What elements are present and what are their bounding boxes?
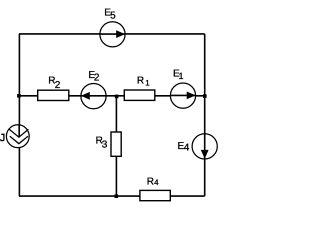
wire top horizontal [19, 33, 205, 35]
svg-text:4: 4 [154, 178, 159, 187]
svg-text:1: 1 [179, 71, 184, 81]
label J (clipped at left edge) [1, 134, 5, 140]
resistor R1 [124, 90, 155, 100]
wire middle vertical R3 branch [115, 96, 117, 196]
resistor R2 [38, 90, 69, 100]
junction node center-middle [115, 95, 119, 99]
svg-text:2: 2 [94, 73, 100, 84]
label R1 [137, 76, 150, 88]
label R4 [147, 176, 159, 187]
svg-text:R: R [137, 76, 144, 87]
junction node left-middle [17, 94, 21, 98]
wire left vertical [18, 34, 20, 196]
resistor R4 [140, 190, 170, 200]
resistor R3 [111, 132, 121, 156]
label R3 [96, 136, 108, 151]
voltage source E2 [81, 84, 106, 109]
junction node right-middle [203, 94, 207, 98]
label R2 [48, 76, 61, 91]
wire right vertical [204, 34, 206, 196]
svg-text:2: 2 [55, 80, 61, 91]
svg-text:R: R [147, 176, 154, 187]
current source J [6, 125, 29, 148]
label E1 [173, 69, 184, 81]
voltage source E5 [100, 22, 125, 47]
wire bottom horizontal [19, 195, 205, 197]
svg-text:1: 1 [145, 79, 150, 88]
voltage source E4 [192, 134, 217, 159]
label E5 [104, 7, 116, 21]
label E2 [88, 70, 100, 84]
svg-text:5: 5 [110, 11, 116, 22]
label E4 [178, 141, 190, 153]
svg-text:3: 3 [102, 140, 108, 151]
svg-text:4: 4 [184, 143, 190, 154]
wire middle horizontal [19, 95, 205, 97]
voltage source E1 [170, 83, 195, 108]
junction node bottom [115, 194, 119, 198]
